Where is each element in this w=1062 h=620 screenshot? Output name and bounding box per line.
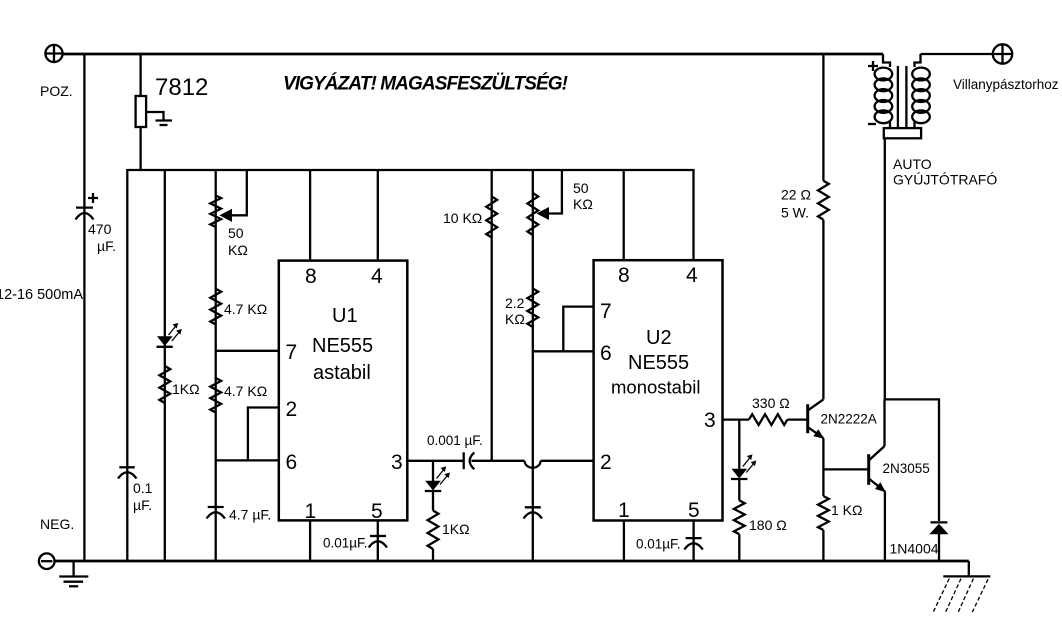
wire U1 pin6 xyxy=(216,459,279,461)
svg-text:1KΩ: 1KΩ xyxy=(442,521,470,537)
capacitor C 4.7uF xyxy=(207,507,272,523)
wire top rail xyxy=(63,53,883,56)
svg-text:U2: U2 xyxy=(646,327,672,349)
resistor R 2.2K xyxy=(505,289,538,328)
wire 22R branch xyxy=(822,54,824,181)
svg-text:5: 5 xyxy=(688,499,700,522)
svg-text:1KΩ: 1KΩ xyxy=(172,381,200,397)
wire U2 pin5 xyxy=(692,521,694,562)
svg-text:3: 3 xyxy=(391,451,403,474)
svg-text:µF.: µF. xyxy=(133,497,152,513)
svg-text:4: 4 xyxy=(686,264,698,287)
svg-text:2: 2 xyxy=(600,451,612,474)
diode D4 1N4004 xyxy=(890,522,948,561)
svg-text:1: 1 xyxy=(305,500,317,523)
svg-text:NE555: NE555 xyxy=(628,352,689,374)
ground (right, earth) xyxy=(933,561,991,613)
svg-text:8: 8 xyxy=(618,264,630,287)
svg-text:VIGYÁZAT! MAGASFESZÜLTSÉG!: VIGYÁZAT! MAGASFESZÜLTSÉG! xyxy=(283,73,568,95)
capacitor C timing (mid) xyxy=(524,507,543,518)
svg-text:50: 50 xyxy=(228,225,244,241)
svg-text:470: 470 xyxy=(88,221,112,237)
transistor Q1 2N2222A xyxy=(808,399,877,469)
capacitor C 0.001uF (series) xyxy=(427,433,594,469)
svg-text:2N3055: 2N3055 xyxy=(883,461,930,476)
svg-text:monostabil: monostabil xyxy=(611,377,700,398)
svg-text:NEG.: NEG. xyxy=(40,516,74,532)
svg-text:0.001 µF.: 0.001 µF. xyxy=(427,433,483,448)
svg-text:1 KΩ: 1 KΩ xyxy=(831,502,862,518)
svg-text:2N2222A: 2N2222A xyxy=(821,412,877,427)
resistor R 180 xyxy=(734,500,787,561)
capacitor C 0.01uF (U1 pin5) xyxy=(323,536,387,551)
regulator U3 7812 xyxy=(136,54,209,170)
svg-text:µF.: µF. xyxy=(97,238,116,254)
terminal POZ (+) xyxy=(40,45,73,99)
LED D2 xyxy=(425,461,450,511)
resistor R 1K (left) xyxy=(159,366,199,403)
wire U2 pin1 xyxy=(623,521,625,562)
svg-text:22 Ω: 22 Ω xyxy=(781,187,811,203)
svg-text:10 KΩ: 10 KΩ xyxy=(443,210,482,226)
svg-text:0.01µF.: 0.01µF. xyxy=(323,536,368,551)
op-amp U2 NE555 box xyxy=(594,260,723,522)
svg-text:POZ.: POZ. xyxy=(40,83,73,99)
ground (left) xyxy=(59,561,88,586)
svg-text:4.7 µF.: 4.7 µF. xyxy=(229,507,271,523)
svg-text:KΩ: KΩ xyxy=(228,242,248,258)
wire U2 pin6 xyxy=(533,350,594,352)
svg-text:330 Ω: 330 Ω xyxy=(752,395,790,411)
svg-text:3: 3 xyxy=(704,409,716,432)
svg-text:2.2: 2.2 xyxy=(505,295,525,311)
LED D1 xyxy=(157,323,182,347)
svg-text:4.7 KΩ: 4.7 KΩ xyxy=(224,301,267,317)
wire 0.1uF branch xyxy=(126,169,128,561)
capacitor C 0.01uF (U2 pin5) xyxy=(636,537,703,552)
svg-text:2: 2 xyxy=(286,398,298,421)
op-amp U1 NE555 box xyxy=(279,261,408,523)
svg-text:7812: 7812 xyxy=(155,74,208,101)
wire pot1 branch xyxy=(215,169,217,561)
capacitor C 470uF xyxy=(76,193,116,254)
resistor R 4.7K (upper) xyxy=(210,289,267,325)
svg-text:4: 4 xyxy=(371,265,383,288)
terminal output (+) xyxy=(953,44,1059,92)
svg-text:6: 6 xyxy=(600,342,612,365)
svg-text:12-16 500mA: 12-16 500mA xyxy=(0,287,83,303)
wire U1 pin5 xyxy=(377,520,379,561)
wire hop (crossover) xyxy=(525,461,541,468)
resistor R 10K xyxy=(443,197,497,238)
svg-text:GYÚJTÓTRAFÓ: GYÚJTÓTRAFÓ xyxy=(893,172,997,188)
svg-text:180 Ω: 180 Ω xyxy=(749,517,787,533)
svg-text:0.01µF.: 0.01µF. xyxy=(636,537,681,552)
terminal NEG (-) xyxy=(39,516,74,569)
potentiometer P1 50K xyxy=(210,170,248,258)
wire bottom rail xyxy=(54,560,969,563)
svg-text:6: 6 xyxy=(286,451,298,474)
resistor R 4.7K (lower) xyxy=(210,378,267,413)
svg-text:1N4004: 1N4004 xyxy=(890,541,939,557)
svg-text:AUTO: AUTO xyxy=(893,156,932,172)
wire U2 pin3 out xyxy=(723,418,750,420)
wire U1 pin3 out xyxy=(407,460,463,462)
svg-text:KΩ: KΩ xyxy=(573,196,593,212)
svg-text:1: 1 xyxy=(618,499,630,522)
svg-text:U1: U1 xyxy=(332,305,358,327)
transformer T1 xyxy=(868,54,997,399)
wire U2 pin8 xyxy=(623,170,625,260)
wire collector node to diode xyxy=(885,399,940,521)
svg-text:7: 7 xyxy=(600,300,612,323)
wire U2 pin4 xyxy=(692,169,694,260)
LED D3 xyxy=(731,420,756,501)
svg-text:4.7 KΩ: 4.7 KΩ xyxy=(224,383,267,399)
svg-text:astabil: astabil xyxy=(313,362,371,384)
wire U1 pin4 xyxy=(377,170,379,261)
svg-text:NE555: NE555 xyxy=(312,335,373,357)
capacitor C 0.1uF xyxy=(118,467,153,513)
ground (7812 tab) xyxy=(146,112,172,125)
svg-text:KΩ: KΩ xyxy=(505,311,525,327)
wire 12V rail xyxy=(127,169,693,171)
wire left rail xyxy=(83,54,85,561)
wire U1 pin8 xyxy=(309,170,311,261)
wire 10K branch xyxy=(491,169,493,461)
svg-text:50: 50 xyxy=(573,180,589,196)
wire U2 pin7 link xyxy=(563,307,593,352)
svg-text:7: 7 xyxy=(286,341,298,364)
resistor R 1K (right) xyxy=(818,469,862,561)
svg-text:Villanypásztorhoz: Villanypásztorhoz xyxy=(953,77,1059,92)
svg-text:5 W.: 5 W. xyxy=(781,205,809,221)
svg-text:8: 8 xyxy=(305,265,317,288)
resistor R 330 xyxy=(749,395,807,425)
wire Q1 emitter to Q2 base xyxy=(823,468,868,470)
wire LED1 branch xyxy=(164,169,166,561)
potentiometer P2 50K xyxy=(527,170,592,235)
resistor R 22 5W xyxy=(781,181,829,400)
svg-text:0.1: 0.1 xyxy=(133,480,153,496)
wire U1 pin2 link xyxy=(248,408,279,461)
wire U1 pin1 xyxy=(309,520,311,561)
wire pot2 branch xyxy=(532,169,534,561)
wire U1 pin7 xyxy=(216,350,279,352)
wire top right xyxy=(921,53,993,55)
transistor Q2 2N3055 xyxy=(869,399,930,561)
svg-text:5: 5 xyxy=(371,500,383,523)
resistor R 1K (mid) xyxy=(428,511,470,562)
